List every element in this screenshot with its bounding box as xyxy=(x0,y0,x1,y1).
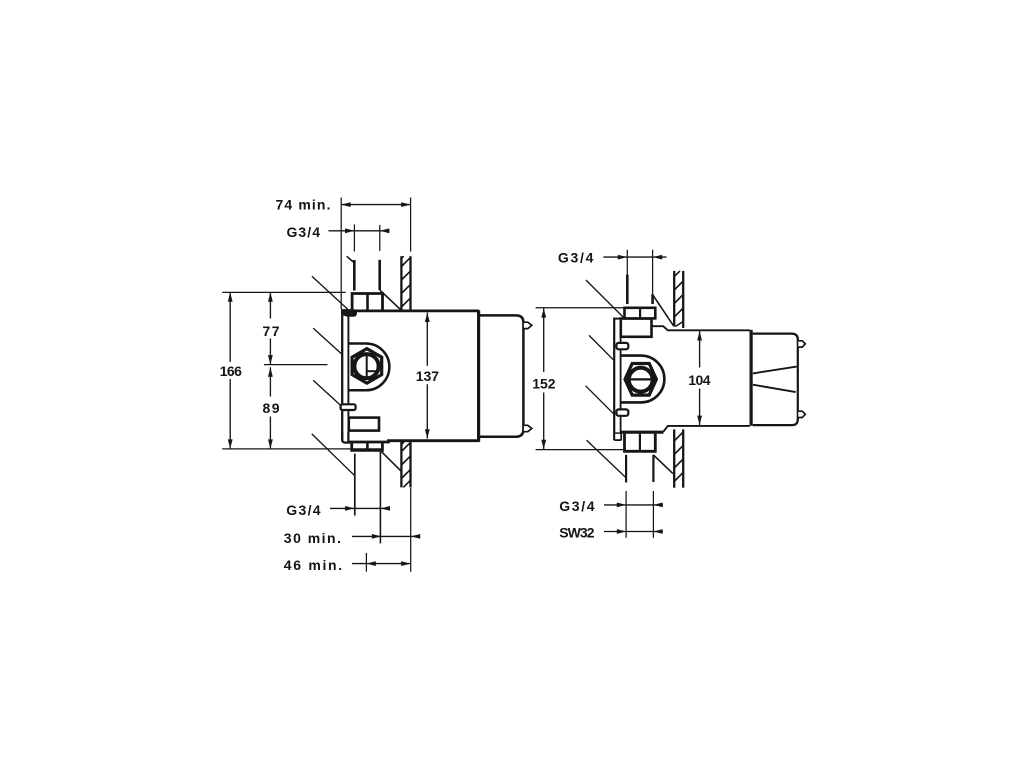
left view: leader to flange middle xyxy=(313,328,342,355)
left view: port circle xyxy=(354,354,378,378)
right view: side port circle xyxy=(629,368,653,392)
dimension 30 min. xyxy=(352,534,420,539)
svg-text:30 min.: 30 min. xyxy=(284,530,341,546)
svg-text:SW32: SW32 xyxy=(559,525,594,541)
left view: body bottom edge with step xyxy=(349,441,479,442)
right view: screw slot xyxy=(629,378,654,380)
dimension 104 xyxy=(697,331,702,425)
right view: wall section top xyxy=(674,271,683,328)
left view: retaining tab top right xyxy=(524,322,532,328)
right view: leader to bottom pipe xyxy=(587,440,627,478)
left view: bottom-left step block xyxy=(349,418,379,431)
right view: leader to flange lower xyxy=(586,386,614,414)
left view: top nut facet divider xyxy=(366,294,369,311)
right view: body bottom step xyxy=(663,426,750,432)
left view: leader to bottom pipe xyxy=(312,434,355,476)
left view: bottom pipe / extension left xyxy=(354,454,356,516)
dimension G3/4 bottom right view xyxy=(604,503,663,508)
svg-text:104: 104 xyxy=(688,372,711,388)
svg-text:G3/4: G3/4 xyxy=(559,498,594,514)
left view: screw slot horizontal half xyxy=(367,370,378,372)
dimension G3/4 top left view xyxy=(329,224,390,251)
right view: top connection nut xyxy=(625,308,656,319)
left view: wall hole chamfer top left xyxy=(347,256,355,263)
svg-text:77: 77 xyxy=(263,323,280,339)
right view: flange clip lower xyxy=(616,409,628,415)
left view: flange inner edge xyxy=(347,316,349,441)
right view: flange top cap xyxy=(613,318,621,320)
dimension 137 xyxy=(425,313,430,439)
left view: leader to flange clip xyxy=(313,380,341,406)
dimension 152 xyxy=(536,308,626,450)
right view: leader to top nut xyxy=(586,280,624,318)
left view: bottom connection nut xyxy=(352,443,383,450)
svg-text:46 min.: 46 min. xyxy=(284,557,342,573)
right view: leader to flange upper xyxy=(589,335,613,359)
right view: flange clip upper xyxy=(616,343,628,349)
right view: body right edge (thick) xyxy=(749,330,752,426)
left view: flange clip xyxy=(341,404,356,410)
right view: flange bottom notch xyxy=(615,434,620,439)
dimension 77 xyxy=(268,292,273,364)
right view: wall hole chamfer bottom xyxy=(653,455,673,474)
right view: flange inner edge xyxy=(620,319,622,440)
left view: screw slot vertical xyxy=(366,355,368,379)
left view: cartridge housing outline xyxy=(479,315,523,436)
right view: D-boss around side port xyxy=(621,356,664,403)
dimension G3/4 top right view xyxy=(603,250,666,294)
right view: bottom connection nut xyxy=(625,434,656,452)
svg-text:G3/4: G3/4 xyxy=(287,224,321,240)
left view: flange outer edge xyxy=(341,309,343,441)
left view: leader to flange top corner xyxy=(312,276,348,309)
left view: port hexagon xyxy=(352,349,382,384)
right view: flange bottom block xyxy=(614,432,623,441)
reference line bottom xyxy=(222,448,382,450)
svg-text:152: 152 xyxy=(532,375,556,391)
right view: tail section outline xyxy=(753,334,798,426)
left view: flange bottom U xyxy=(342,432,348,443)
left view: top pipe walls xyxy=(353,260,356,291)
dimension SW32 xyxy=(604,491,663,538)
dimension 166 xyxy=(228,292,233,448)
svg-text:G3/4: G3/4 xyxy=(286,502,321,518)
left view: retaining tab bottom right xyxy=(524,425,532,431)
right view: bottom pipe stubs xyxy=(625,455,627,483)
right view: top nut facet divider xyxy=(639,308,641,319)
right view: top port boss xyxy=(621,319,652,337)
dimension 74 min. xyxy=(341,198,410,310)
svg-text:166: 166 xyxy=(220,363,242,379)
left view: body/cartridge divider (thick right edge of main box) xyxy=(477,310,480,442)
svg-text:89: 89 xyxy=(263,400,280,416)
left view: bottom nut facet divider xyxy=(366,443,369,450)
svg-text:137: 137 xyxy=(416,368,440,384)
right view: bottom nut facet divider xyxy=(639,434,641,452)
dimension 46 min. xyxy=(352,488,411,572)
right view: flange outer edge xyxy=(613,319,615,441)
dimension G3/4 bottom left view xyxy=(330,506,390,511)
right view: retaining tab top xyxy=(798,341,805,347)
left view: wall hole chamfer top right xyxy=(380,290,401,310)
reference line center of port xyxy=(264,364,328,366)
svg-text:G3/4: G3/4 xyxy=(558,250,594,266)
right view: tail cone lower line xyxy=(753,385,796,392)
dimension 89 xyxy=(268,367,273,449)
right view: tail cone upper line xyxy=(753,367,797,374)
svg-text:74 min.: 74 min. xyxy=(276,197,331,213)
left view: valve body main box top edge xyxy=(342,309,479,312)
left view: wall section top xyxy=(401,256,410,310)
right view: wall section bottom xyxy=(674,429,683,487)
right view: wall hole chamfer top xyxy=(653,295,674,326)
right view: body bottom edge thick left part xyxy=(621,431,664,434)
left view: wall hole chamfer bottom xyxy=(381,451,401,471)
left view: flange top hook (filled) xyxy=(341,309,357,317)
right view: retaining tab bottom xyxy=(798,411,805,417)
left view: wall section bottom xyxy=(401,442,410,488)
right view: body top edge with step xyxy=(652,326,750,330)
reference line top xyxy=(222,291,346,293)
right view: top pipe walls xyxy=(626,275,629,304)
left view: D-boss around port xyxy=(349,344,389,391)
left view: top connection nut xyxy=(352,294,382,311)
left view: bottom pipe / extension right xyxy=(379,452,381,544)
right view: side port hexagon xyxy=(625,364,656,396)
